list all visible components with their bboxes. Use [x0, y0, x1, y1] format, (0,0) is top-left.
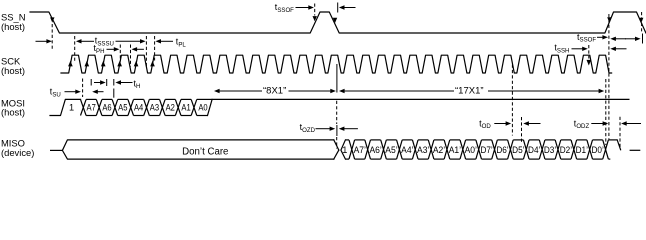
- svg-text:A4: A4: [134, 102, 143, 112]
- svg-text:tOZD: tOZD: [300, 122, 316, 134]
- svg-text:A3: A3: [150, 102, 159, 112]
- crossover X MOSI boundary 6: [175, 99, 181, 115]
- dimension arrow right of SS_N pulse: [338, 3, 356, 13]
- data cell MISO bit 1 opening: [341, 140, 349, 159]
- svg-text:A5: A5: [118, 102, 127, 112]
- crossover X MISO boundary 11: [523, 140, 529, 159]
- data cell MISO A3&#8217;: [417, 140, 429, 159]
- svg-text:A6: A6: [102, 102, 111, 112]
- data cell MISO D0&#8217;: [591, 140, 603, 159]
- svg-text:A0’: A0’: [465, 145, 477, 155]
- crossover X MISO boundary 16: [603, 140, 609, 159]
- dimension t_PL label and arrow: [155, 37, 186, 49]
- dimension t_SSH label and arrow: [554, 43, 587, 55]
- data cell MISO A5&#8217;: [385, 140, 397, 159]
- crossover X MISO boundary 3: [397, 140, 403, 159]
- data cell MISO A2&#8217;: [433, 140, 445, 159]
- dimension t_SSH right arrow: [610, 47, 626, 51]
- dimension t_OD label and arrow: [479, 118, 511, 130]
- svg-text:Don’t Care: Don’t Care: [182, 147, 228, 158]
- svg-text:(host): (host): [1, 65, 25, 76]
- svg-text:A5’: A5’: [385, 145, 397, 155]
- svg-text:A2: A2: [166, 102, 175, 112]
- crossover X MISO boundary 2: [381, 140, 387, 159]
- crossover X MISO boundary 14: [571, 140, 577, 159]
- svg-text:A7: A7: [87, 102, 96, 112]
- crossover X MISO boundary 8: [476, 140, 482, 159]
- crossover X MOSI boundary 3: [128, 99, 134, 115]
- reference dashed line x=336.7: [336, 101, 338, 149]
- svg-text:tSSH: tSSH: [554, 43, 569, 55]
- crossover X MOSI boundary 4: [144, 99, 150, 115]
- edge marker SS_N pulse rising edge: [313, 16, 317, 21]
- svg-text:tODZ: tODZ: [574, 118, 590, 130]
- svg-text:1: 1: [342, 145, 347, 155]
- crossover X MOSI boundary 0: [81, 99, 87, 115]
- label Dont Care: [182, 147, 228, 158]
- dont-care eye MISO: [62, 140, 338, 159]
- data cell MISO D2&#8217;: [560, 140, 572, 159]
- svg-text:A3’: A3’: [417, 145, 429, 155]
- reference dashed line first SCK rise x=74.7: [74, 36, 76, 62]
- data cell MISO A1&#8217;: [449, 140, 461, 159]
- dimension arrow into SS_N falling edge: [36, 39, 53, 43]
- dimension t_SSSU label and arrows: [76, 36, 146, 48]
- svg-text:“17X1”: “17X1”: [455, 86, 484, 97]
- svg-text:D0’: D0’: [591, 145, 603, 155]
- dimension t_ODZ label and arrow: [574, 118, 608, 130]
- crossover X MISO boundary 6: [444, 140, 450, 159]
- dimension 17X1 label: [455, 86, 484, 97]
- edge marker SS_N final rising edge: [607, 17, 611, 22]
- svg-text:1: 1: [69, 102, 74, 112]
- wire MISO Hi-Z continuation dash: [630, 149, 641, 151]
- crossover X MISO boundary 12: [539, 140, 545, 159]
- data cell MISO D5&#8217;: [512, 140, 524, 159]
- dimension t_OD right arrow: [523, 121, 540, 125]
- edge marker SCK rising edge 1: [68, 61, 73, 67]
- dimension t_OZD right arrow: [339, 127, 358, 131]
- svg-text:tSSOF: tSSOF: [577, 32, 596, 44]
- data cell MOSI A3: [149, 99, 159, 115]
- signal label MISO (device): [1, 138, 34, 159]
- crossover X MISO boundary 7: [460, 140, 466, 159]
- dimension t_SSOF label and arrow (middle pulse): [275, 2, 314, 14]
- svg-text:tSSOF: tSSOF: [275, 2, 294, 14]
- svg-text:(host): (host): [1, 21, 25, 32]
- edge marker SS_N final falling edge: [639, 18, 643, 23]
- data cell MOSI A4: [134, 99, 144, 115]
- dimension t_PH label and arrows: [94, 43, 144, 55]
- wire MISO start stub: [50, 149, 62, 151]
- crossover X MISO boundary 5: [428, 140, 434, 159]
- data cell MOSI A0 closing upward: [197, 99, 212, 115]
- edge marker SCK rising edge 6: [150, 61, 155, 67]
- reference dashed line MISO end x=605.8: [605, 79, 607, 145]
- data cell MOSI A6: [102, 99, 112, 115]
- edge marker SCK rising edge 5: [134, 61, 139, 67]
- reference dashed line data valid x=521.5: [521, 117, 523, 144]
- dimension 8X1 left arrow: [214, 89, 262, 93]
- reference dashed line SS_N final fall x=641.6: [641, 12, 643, 32]
- crossover X MOSI boundary 7: [191, 99, 197, 115]
- svg-text:tSSSU: tSSSU: [95, 36, 114, 48]
- svg-text:D4’: D4’: [528, 145, 540, 155]
- reference bar 8X1/17X1 boundary x=336.9: [336, 64, 338, 93]
- svg-text:D2’: D2’: [560, 145, 572, 155]
- reference dashed line MOSI X 1/A7 x=82.6: [82, 79, 84, 98]
- edge marker SS_N first falling edge: [50, 17, 54, 22]
- data cell MISO D3&#8217;: [544, 140, 556, 159]
- data cell MISO A4&#8217;: [401, 140, 413, 159]
- svg-text:A1: A1: [181, 102, 190, 112]
- data cell MISO D1&#8217;: [576, 140, 588, 159]
- signal label MOSI (host): [1, 98, 25, 118]
- dimension 8X1 right arrow: [289, 89, 336, 93]
- svg-text:A0: A0: [198, 102, 207, 112]
- svg-text:A7’: A7’: [354, 145, 366, 155]
- reference bar t_OZD x=336.9: [336, 125, 338, 136]
- crossover X MISO boundary 0: [349, 140, 355, 159]
- crossover X MISO boundary 10: [508, 140, 514, 159]
- signal label SCK (host): [1, 56, 25, 77]
- crossover X MISO boundary 9: [492, 140, 498, 159]
- svg-text:“8X1”: “8X1”: [263, 86, 286, 97]
- edge marker SS_N pulse falling edge: [333, 18, 337, 23]
- svg-text:A2’: A2’: [433, 145, 445, 155]
- reference bar x=642.5: [642, 34, 644, 44]
- wire MOSI start and bit 1 high: [50, 99, 81, 115]
- wire MOSI high level to end: [212, 98, 629, 100]
- wire MISO end to Hi-Z: [608, 140, 620, 159]
- data cell MISO A6&#8217;: [369, 140, 381, 159]
- data cell MOSI A1: [181, 99, 191, 115]
- dimension t_H left arrow: [94, 80, 106, 84]
- dimension t_SSOF label and arrow (right): [577, 32, 608, 44]
- data cell MISO A0&#8217;: [465, 140, 477, 159]
- reference dashed line SS_N fall x=52.2: [51, 24, 53, 50]
- crossover X MOSI boundary 2: [112, 99, 118, 115]
- dimension t_H label and arrow: [115, 78, 140, 90]
- reference dashed line SCK fall x=130.5: [130, 45, 132, 67]
- dimension t_ODZ right arrow: [621, 121, 641, 125]
- reference bar x=106.7: [106, 79, 108, 86]
- edge marker SCK rising edge 3: [101, 61, 106, 67]
- svg-text:tOD: tOD: [479, 118, 491, 130]
- svg-text:D1’: D1’: [576, 145, 588, 155]
- reference dashed line last SCK falling edge x=588.8: [587, 45, 592, 66]
- edge marker SCK rising edge 2: [85, 61, 90, 67]
- svg-text:tSU: tSU: [50, 87, 61, 99]
- svg-text:tPL: tPL: [176, 37, 187, 49]
- dimension 17X1 left arrow: [339, 89, 454, 93]
- reference bar and dash MOSI X A7/A6 x=113.8: [113, 79, 115, 99]
- crossover X MISO boundary 15: [587, 140, 593, 159]
- reference bar SCK edge x=91.2: [90, 79, 92, 86]
- data cell MOSI A2: [165, 99, 175, 115]
- wire SCK clock waveform (34 pulses): [61, 55, 612, 73]
- svg-text:D5’: D5’: [512, 145, 524, 155]
- reference dashed line SCK rise x=120.3: [119, 45, 121, 62]
- svg-text:A4’: A4’: [401, 145, 413, 155]
- crossover X MISO boundary 4: [412, 140, 418, 159]
- data cell MISO D6&#8217;: [496, 140, 508, 159]
- data cell MISO D7&#8217;: [480, 140, 492, 159]
- svg-text:D7’: D7’: [480, 145, 492, 155]
- crossover X MISO boundary 13: [555, 140, 561, 159]
- svg-text:D6’: D6’: [496, 145, 508, 155]
- svg-text:D3’: D3’: [544, 145, 556, 155]
- reference dashed line SS_N pulse rise x=314.7: [314, 4, 316, 16]
- reference dashed line SS_N rise x=608.9: [608, 14, 610, 140]
- bit label 1 (MOSI start bit): [69, 102, 74, 112]
- crossover X MISO boundary 1: [365, 140, 371, 159]
- crossover X MOSI boundary 1: [96, 99, 102, 115]
- data cell MOSI A7: [86, 99, 96, 115]
- svg-text:(device): (device): [1, 147, 34, 158]
- svg-text:(host): (host): [1, 106, 25, 117]
- reference dashed line SCK fall x=146.4: [145, 36, 147, 68]
- reference dashed line SCK edge x=512.4: [511, 65, 513, 136]
- svg-text:tH: tH: [134, 78, 141, 90]
- data cell MISO A7&#8217;: [354, 140, 366, 159]
- dimension 17X1 right arrow: [488, 89, 604, 93]
- reference dashed line SCK rise x=154.6: [154, 36, 156, 61]
- dimension t_OZD label and arrow: [300, 122, 336, 134]
- dimension t_SU right arrow: [92, 90, 103, 94]
- svg-text:A1’: A1’: [449, 145, 461, 155]
- signal label SS_N (host): [1, 12, 26, 33]
- svg-text:A6’: A6’: [369, 145, 381, 155]
- data cell MOSI A5: [118, 99, 128, 115]
- dimension 8X1 label: [263, 86, 286, 97]
- dimension t_SU label and arrow: [50, 87, 81, 99]
- dimension double arrow SS_N high pulse width: [610, 37, 640, 41]
- edge marker SCK rising edge 4: [117, 61, 122, 67]
- crossover X MOSI boundary 5: [160, 99, 166, 115]
- reference dashed line MISO Hi-Z x=620.0: [619, 117, 621, 149]
- wire SS_N waveform: [30, 12, 646, 33]
- data cell MISO D4&#8217;: [528, 140, 540, 159]
